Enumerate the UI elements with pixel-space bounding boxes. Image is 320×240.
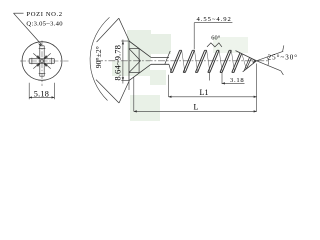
tip angle lower line 25~30 — [253, 59, 281, 71]
side view axis centerline — [96, 60, 268, 62]
head height extension line top — [121, 40, 129, 42]
head cone upper flank — [129, 41, 151, 57]
svg-text:60°: 60° — [211, 34, 220, 41]
thread helix back line 5 — [231, 50, 234, 72]
recess side view right edge — [138, 49, 140, 73]
tip angle upper end tick — [283, 45, 284, 51]
L1 dimension line — [169, 96, 257, 98]
recess diagonal ray lower-left — [33, 66, 37, 69]
svg-text:90°±2°: 90°±2° — [94, 46, 103, 68]
watermark patch upper head zone — [127, 30, 151, 61]
watermark patch upper shank zone — [150, 34, 171, 54]
svg-text:L: L — [194, 103, 199, 112]
thread helix back line 7 — [251, 58, 253, 63]
thread profile 60 deg zigzag — [207, 43, 222, 47]
head height dim arrows — [122, 41, 124, 81]
recess side view lower cone line — [129, 61, 141, 73]
recess slot end caps — [32, 48, 52, 73]
pozidriv recess vertical slot — [40, 46, 44, 76]
thread start flank — [165, 51, 171, 72]
shank bottom line — [151, 63, 169, 65]
leader tail for POZI note — [14, 12, 24, 14]
thread turn 6 — [232, 53, 242, 73]
dim 4.55~4.92 line — [194, 22, 232, 24]
pozidriv recess horizontal slot — [29, 59, 54, 64]
front view vertical centerline — [41, 41, 43, 87]
recess diagonal ray upper-right — [47, 53, 51, 56]
svg-text:3.18: 3.18 — [230, 77, 244, 84]
dim 3.18 left extension line — [209, 72, 211, 80]
recess diagonal wedge upper-left — [36, 55, 40, 59]
svg-text:5.18: 5.18 — [34, 90, 49, 99]
svg-text:Q:3.05~3.40: Q:3.05~3.40 — [26, 20, 63, 27]
thread helix back line 6 — [242, 54, 246, 69]
thread helix back line 3 — [207, 50, 210, 72]
recess center square — [41, 60, 44, 62]
recess side view top line — [129, 48, 139, 50]
watermark patch lower shank zone — [150, 70, 166, 85]
recess diagonal wedge upper-right — [43, 55, 47, 59]
L dimension line — [134, 110, 257, 112]
leader arrowhead — [38, 43, 41, 46]
dim 3.18 right extension line — [221, 72, 223, 84]
dim 5.18 dimension line — [29, 96, 54, 98]
tip upper taper — [236, 51, 257, 61]
svg-text:4.55~4.92: 4.55~4.92 — [197, 16, 231, 23]
watermark patch thread zone — [213, 37, 248, 53]
countersink angle arc — [90, 17, 109, 100]
head cone lower flank — [129, 64, 151, 80]
thread helix back line 2 — [195, 50, 198, 72]
countersink angle construction upper-right line — [119, 18, 130, 41]
recess diagonal wedge lower-left — [36, 63, 40, 67]
head height dim line 8.64~9.78 — [122, 40, 124, 84]
countersink angle construction lower-left line — [96, 80, 119, 103]
dim 5.18 right extension line — [53, 83, 55, 100]
recess side view bottom line — [129, 72, 139, 74]
head height extension line bottom — [121, 80, 129, 82]
recess diagonal wedge lower-right — [43, 63, 47, 67]
thread helix back line 4 — [219, 50, 222, 72]
thread turn 8 on tip — [253, 60, 255, 64]
front view horizontal centerline — [20, 60, 69, 62]
head flat face — [128, 41, 130, 81]
leader line to recess — [14, 13, 42, 44]
countersink angle construction lower-right line — [119, 81, 129, 103]
thread turn 7 on tip — [244, 57, 251, 70]
recess diagonal ray upper-left — [33, 53, 37, 56]
svg-text:L1: L1 — [200, 88, 209, 97]
tip lower taper — [243, 61, 257, 72]
svg-text:POZI NO.2: POZI NO.2 — [26, 11, 62, 18]
thread turn 4 — [208, 50, 219, 72]
thread turn 2 — [183, 50, 194, 72]
watermark patch lower head zone — [112, 61, 150, 76]
thread turn 1 — [170, 50, 181, 72]
thread turn 3 — [195, 50, 206, 72]
tip angle lower end tick — [281, 71, 284, 75]
L1 left extension line — [168, 75, 170, 97]
recess side view upper cone line — [129, 49, 141, 61]
recess diagonal ray lower-right — [47, 66, 51, 69]
svg-text:8.64~9.78: 8.64~9.78 — [112, 45, 122, 81]
tip angle arc — [267, 57, 269, 66]
L left extension line — [133, 78, 135, 112]
tip extension line — [256, 64, 258, 112]
dim 4.55~4.92 extension to thread — [193, 23, 195, 50]
countersink angle construction upper-left line — [97, 18, 119, 42]
thread helix back line 1 — [182, 50, 185, 72]
L left short extension from head face — [128, 82, 130, 91]
svg-text:25°~30°: 25°~30° — [268, 53, 298, 61]
shank top line — [151, 56, 169, 58]
tip angle upper line 25~30 — [253, 51, 284, 62]
thread turn 5 — [220, 50, 231, 72]
dim 3.18 dimension line with arrow — [222, 82, 245, 84]
dim 5.18 left extension line — [28, 83, 30, 100]
head circle (front view) — [22, 42, 62, 81]
watermark patch bottom zone — [130, 95, 160, 121]
